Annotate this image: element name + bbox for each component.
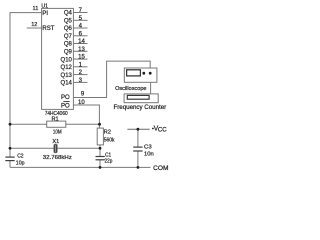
wire pin13 Q9 <box>73 50 87 52</box>
svg-text:PO: PO <box>61 104 70 110</box>
wire VCC stub <box>127 128 149 130</box>
capacitor C2 plates <box>5 156 14 158</box>
svg-text:11: 11 <box>33 6 39 12</box>
svg-text:13: 13 <box>78 47 85 53</box>
svg-text:X1: X1 <box>52 139 59 145</box>
svg-text:14: 14 <box>78 39 85 45</box>
svg-text:Oscilloscope: Oscilloscope <box>115 86 146 92</box>
svg-text:Frequency Counter: Frequency Counter <box>114 104 167 111</box>
svg-text:10: 10 <box>78 100 85 106</box>
svg-text:PI: PI <box>42 11 48 17</box>
wire R2 bottom to node <box>99 145 101 148</box>
wire pin2 Q13 <box>73 74 87 76</box>
svg-text:Q13: Q13 <box>61 73 73 79</box>
capacitor C1 plates <box>96 156 105 158</box>
svg-text:COM: COM <box>153 165 168 172</box>
svg-text:560k: 560k <box>104 137 115 143</box>
junction dot crystal right <box>99 147 102 150</box>
svg-text:Q4: Q4 <box>64 11 73 17</box>
svg-text:Q8: Q8 <box>64 42 73 48</box>
svg-text:32.768kHz: 32.768kHz <box>43 155 72 161</box>
PO overline <box>63 101 69 103</box>
wire pin6 Q7 <box>73 35 87 37</box>
junction dot R1 right <box>98 123 101 126</box>
wire R1 left <box>10 123 47 125</box>
junction dot C3 to rail <box>137 166 140 169</box>
wire pin11 from left rail <box>10 13 42 158</box>
svg-text:Q12: Q12 <box>61 65 73 71</box>
svg-text:10n: 10n <box>144 151 154 157</box>
svg-text:Q7: Q7 <box>64 34 73 40</box>
svg-text:PO: PO <box>61 95 70 101</box>
crystal X1 plates <box>53 145 55 153</box>
svg-text:15: 15 <box>78 55 85 61</box>
junction dot VCC <box>137 128 140 131</box>
IC U1 74HC4060 body <box>42 8 74 109</box>
svg-text:Q6: Q6 <box>64 26 73 32</box>
wire pin5 Q5 <box>73 19 87 21</box>
svg-text:C2: C2 <box>17 153 23 159</box>
wire pin14 Q8 <box>73 43 87 45</box>
wire oscilloscope to counter <box>150 82 152 94</box>
svg-text:C3: C3 <box>144 145 152 151</box>
oscilloscope knob left <box>142 72 145 75</box>
wire pin12 stub <box>27 27 42 29</box>
frequency counter display <box>127 95 149 99</box>
wire pin9 PO to oscilloscope <box>73 61 150 97</box>
wire VCC to C3 <box>137 129 139 147</box>
svg-text:Q9: Q9 <box>64 50 73 56</box>
junction dot crystal left <box>9 147 12 150</box>
wire pin7 Q4 <box>73 12 87 14</box>
svg-text:RST: RST <box>42 26 54 32</box>
svg-text:12: 12 <box>31 22 37 28</box>
oscilloscope knob right <box>149 72 152 75</box>
svg-text:10p: 10p <box>16 161 25 167</box>
wire C3 bottom <box>137 151 139 167</box>
resistor R1 body <box>47 121 66 127</box>
svg-text:22p: 22p <box>105 158 113 164</box>
oscilloscope body <box>124 68 157 82</box>
svg-text:Q10: Q10 <box>61 57 73 63</box>
svg-text:Q5: Q5 <box>64 19 73 25</box>
VCC bullet <box>152 128 154 130</box>
wire pin4 Q6 <box>73 27 87 29</box>
wire C1 top <box>99 148 101 156</box>
wire pin10 PO-bar to R2 <box>73 105 99 128</box>
junction dot R1 left <box>9 123 12 126</box>
svg-text:U1: U1 <box>41 3 48 9</box>
junction dot C1 to rail <box>99 166 102 169</box>
svg-text:10M: 10M <box>53 130 62 136</box>
wire C1 bottom <box>99 160 101 168</box>
capacitor C3 plates <box>133 146 142 148</box>
wire crystal right <box>57 147 100 149</box>
wire C2 bottom <box>9 161 11 168</box>
wire crystal left <box>10 147 54 149</box>
crystal X1 inner body <box>55 144 56 152</box>
ground rail COM <box>10 166 151 168</box>
svg-text:R1: R1 <box>52 116 59 122</box>
svg-text:R2: R2 <box>104 130 111 136</box>
wire pin3 Q14 <box>73 81 87 83</box>
frequency counter body <box>124 94 158 103</box>
wire pin15 Q10 <box>73 58 87 60</box>
wire R1 right <box>66 123 100 125</box>
resistor R2 body <box>97 128 103 145</box>
wire pin1 Q12 <box>73 66 87 68</box>
oscilloscope screen <box>127 70 141 76</box>
svg-text:CC: CC <box>158 127 167 133</box>
svg-text:Q14: Q14 <box>61 81 73 87</box>
